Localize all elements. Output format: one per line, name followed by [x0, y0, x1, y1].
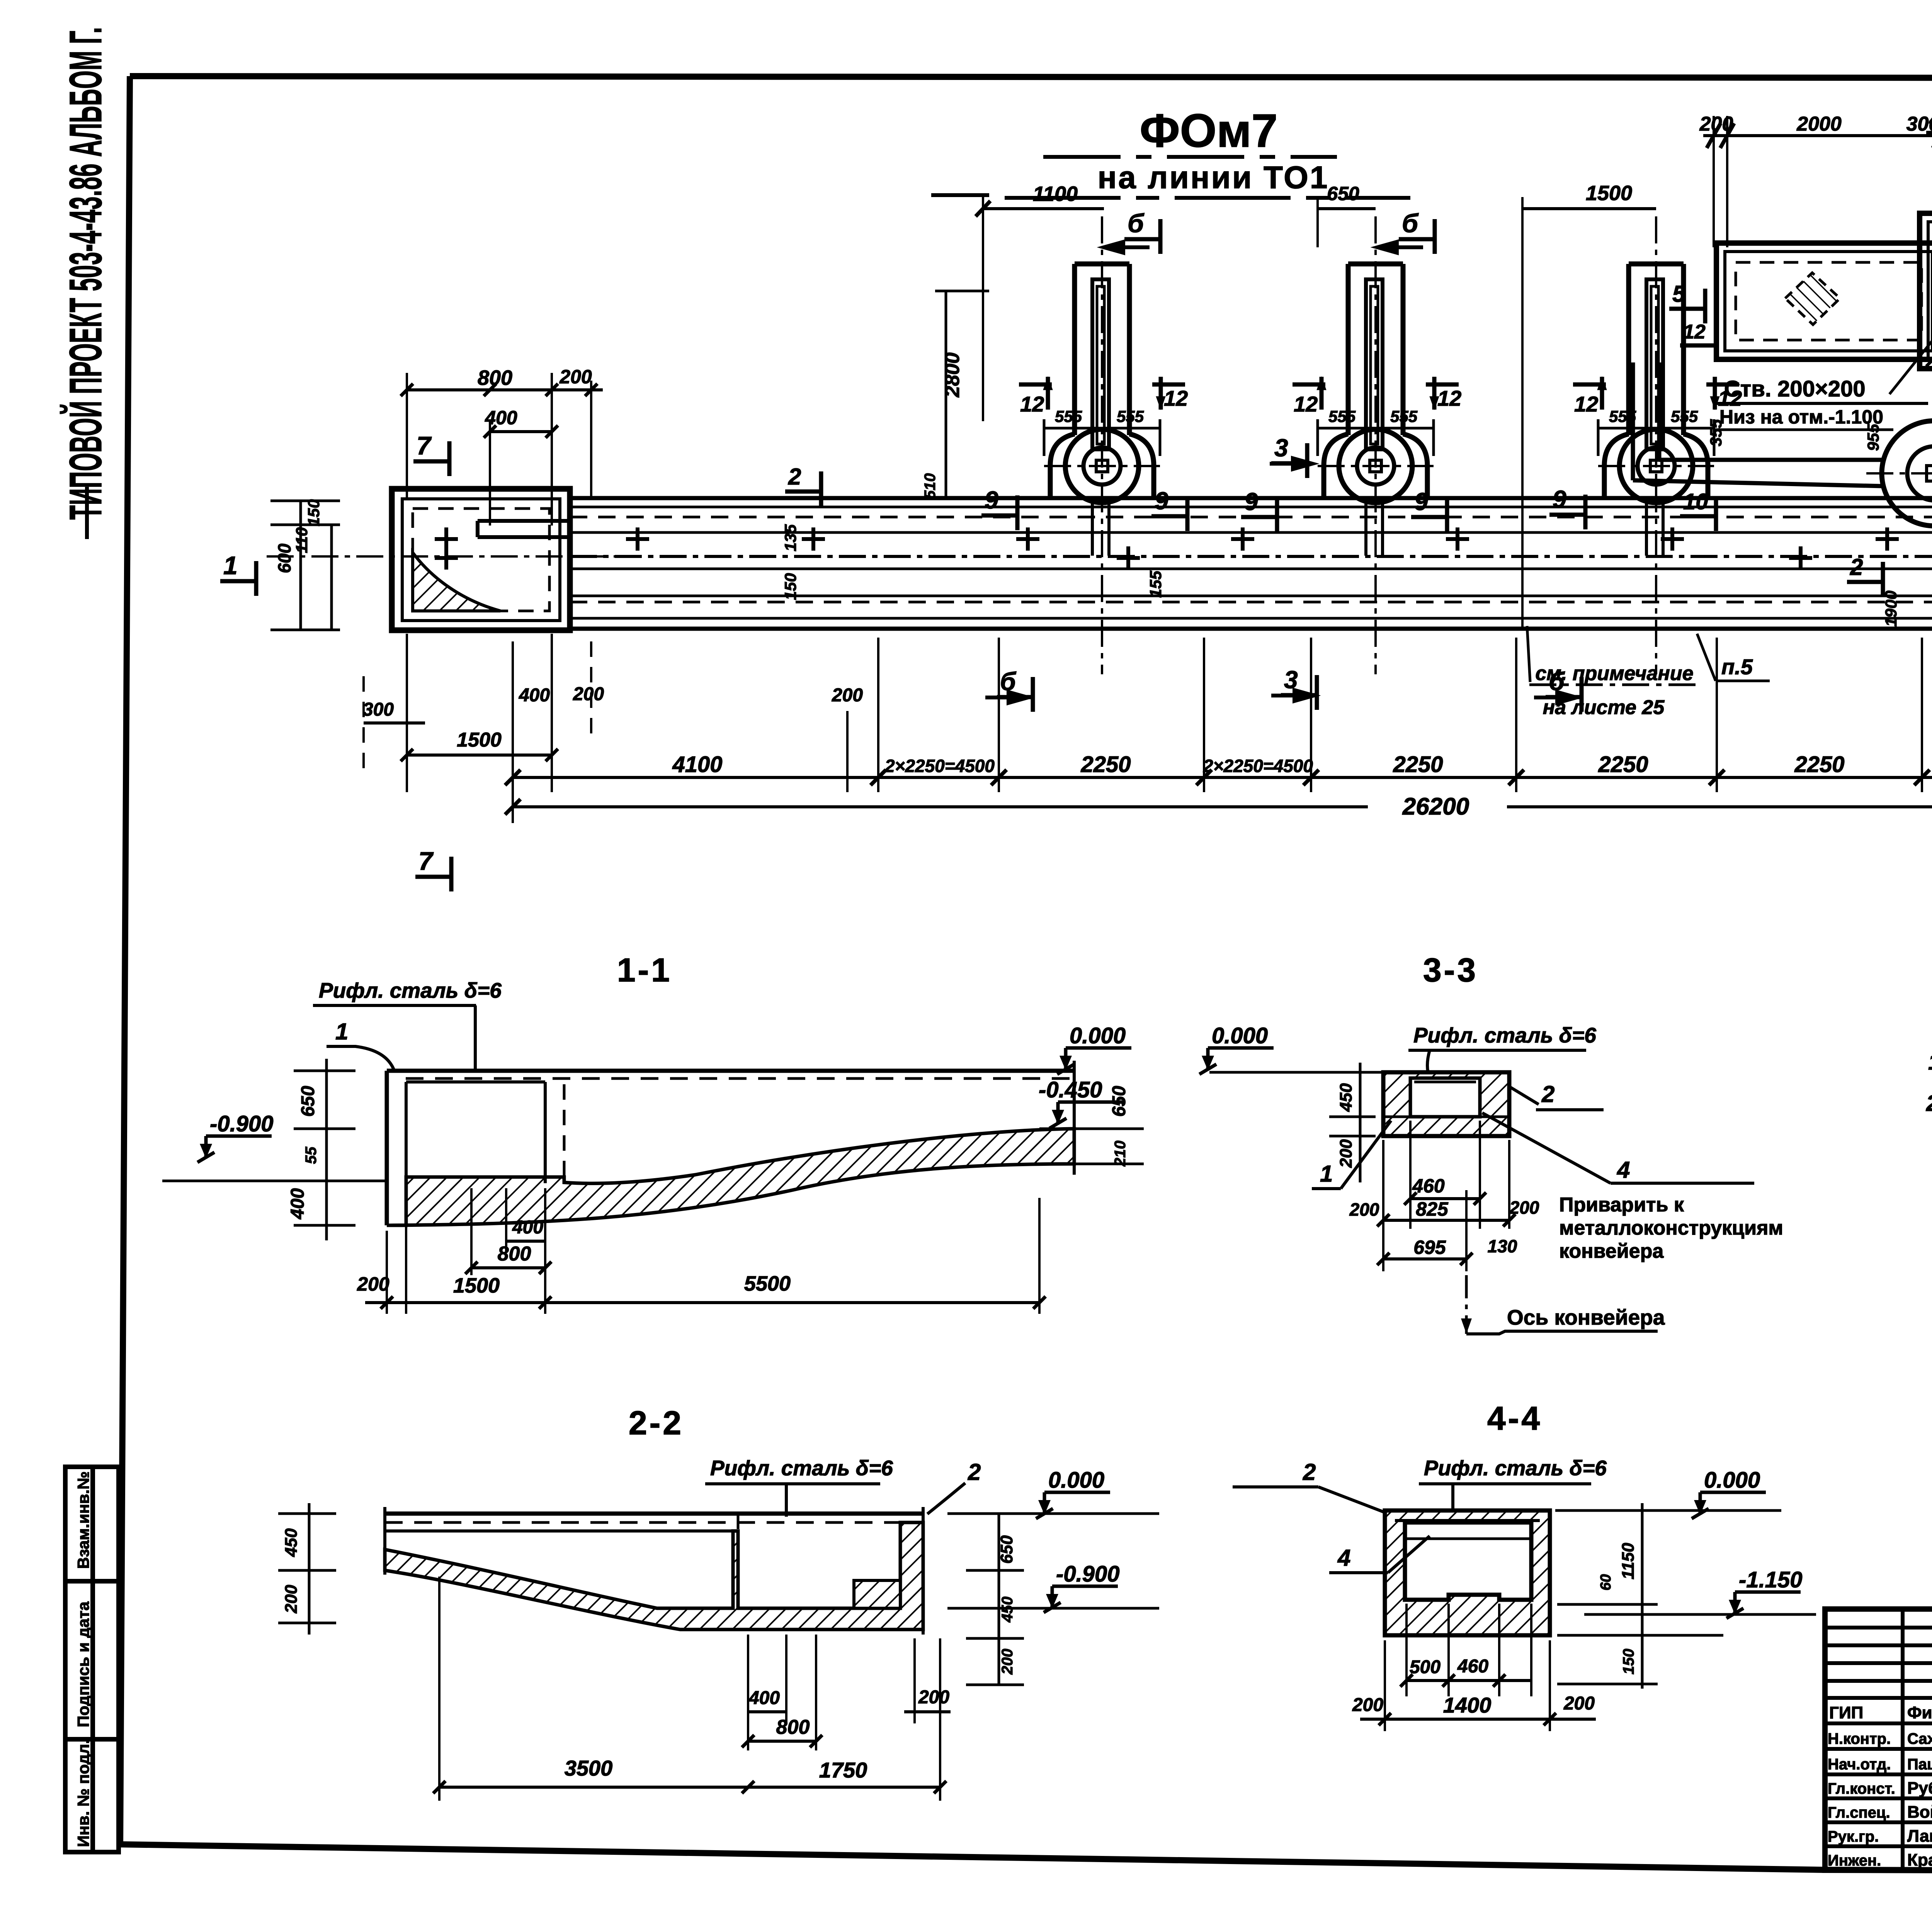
svg-text:200: 200 — [1699, 113, 1733, 135]
plan overall dimension 26200 — [505, 641, 1932, 823]
svg-text:5500: 5500 — [744, 1272, 791, 1295]
svg-text:200: 200 — [573, 684, 604, 704]
equipment base plan left rectangle — [1716, 243, 1932, 359]
svg-text:4: 4 — [1929, 109, 1932, 130]
anchor tower plan cx=2852 — [1044, 216, 1160, 674]
svg-text:400: 400 — [287, 1188, 308, 1220]
svg-text:Кравчук: Кравчук — [1907, 1851, 1932, 1869]
section 2-2 left dims — [278, 1503, 336, 1635]
svg-text:на линии ТО1: на линии ТО1 — [1098, 160, 1329, 195]
svg-text:200: 200 — [559, 366, 592, 388]
svg-text:1. Данный лист смотреть с: 1. Данный лист смотреть с листом 33 — [1928, 1050, 1932, 1075]
svg-text:12: 12 — [1718, 386, 1742, 410]
svg-text:Рубан: Рубан — [1907, 1779, 1932, 1798]
svg-text:1: 1 — [335, 1019, 348, 1044]
svg-text:1400: 1400 — [1443, 1693, 1492, 1717]
detail top dimension line — [1703, 116, 1932, 247]
svg-text:Ось конвейера: Ось конвейера — [1507, 1305, 1665, 1329]
svg-text:Рифл. сталь δ=6: Рифл. сталь δ=6 — [710, 1456, 893, 1480]
section 1-1 right elevation 0.000 — [1057, 1023, 1131, 1074]
svg-text:Войнов: Войнов — [1907, 1803, 1932, 1822]
svg-text:955: 955 — [1864, 424, 1882, 451]
svg-text:4-4: 4-4 — [1487, 1400, 1542, 1437]
svg-text:2250: 2250 — [1794, 752, 1844, 777]
drive unit circle plan — [1866, 367, 1932, 553]
svg-text:2: 2 — [788, 464, 801, 490]
tower1 top dim 1100 — [976, 197, 1104, 421]
section marks 3 — [1271, 434, 1308, 478]
section marks b below — [997, 667, 1034, 712]
section 2-2 elevation -0.900 — [1044, 1561, 1119, 1613]
svg-text:Рифл. сталь δ=6: Рифл. сталь δ=6 — [1424, 1456, 1607, 1480]
svg-text:9: 9 — [1553, 485, 1566, 513]
svg-text:555: 555 — [1328, 407, 1356, 425]
svg-text:0.000: 0.000 — [1212, 1023, 1268, 1048]
svg-text:200: 200 — [282, 1585, 301, 1614]
anchor tower plan cx=3560 — [1318, 216, 1434, 674]
svg-text:555: 555 — [1671, 407, 1698, 425]
svg-text:10: 10 — [1683, 489, 1708, 514]
svg-text:1150: 1150 — [1619, 1543, 1638, 1579]
svg-text:п.5: п.5 — [1721, 655, 1753, 679]
plan subtitle underline — [1005, 196, 1410, 200]
left bottom stamp box — [65, 1467, 119, 1852]
svg-text:Нач.отд.: Нач.отд. — [1828, 1756, 1891, 1773]
b mark arrows — [985, 242, 1577, 703]
svg-text:200: 200 — [357, 1273, 389, 1295]
svg-text:-1.150: -1.150 — [1739, 1567, 1802, 1592]
svg-text:450: 450 — [999, 1597, 1016, 1623]
svg-text:0.000: 0.000 — [1048, 1468, 1104, 1493]
section 3-3 bottom dims — [1377, 1121, 1515, 1271]
svg-text:200: 200 — [999, 1649, 1016, 1675]
tie crosses on strip axis — [435, 527, 458, 551]
section 1-1 left dims — [294, 1059, 355, 1240]
svg-text:200: 200 — [1349, 1199, 1379, 1220]
svg-text:12: 12 — [1683, 321, 1706, 343]
svg-text:55: 55 — [303, 1146, 320, 1164]
svg-text:135: 135 — [781, 524, 799, 551]
left margin underline dashes — [85, 487, 89, 539]
section 3-3 body — [1383, 1072, 1509, 1136]
section 3-3 elevation 0.000 — [1199, 1023, 1274, 1074]
section marks b above towers — [1124, 209, 1161, 254]
svg-text:0.000: 0.000 — [1704, 1468, 1760, 1493]
svg-text:2: 2 — [1541, 1081, 1554, 1107]
svg-text:7: 7 — [417, 431, 432, 460]
svg-text:200: 200 — [1563, 1693, 1595, 1714]
svg-text:12: 12 — [1020, 392, 1044, 416]
svg-text:2. Фундамент замаркирован: 2. Фундамент замаркирован на листе 25. — [1926, 1091, 1932, 1116]
svg-text:металлоконструкциям: металлоконструкциям — [1559, 1217, 1783, 1239]
svg-text:2-2: 2-2 — [629, 1405, 684, 1442]
svg-text:Гл.спец.: Гл.спец. — [1828, 1804, 1890, 1821]
conveyor trench strip plan — [570, 498, 1932, 629]
svg-text:9: 9 — [1244, 488, 1258, 515]
svg-text:3: 3 — [1274, 434, 1288, 462]
svg-text:конвейера: конвейера — [1559, 1240, 1664, 1262]
svg-text:450: 450 — [1337, 1083, 1355, 1112]
section 1-1 bottom dims — [365, 1182, 1046, 1314]
svg-text:Пашнищев: Пашнищев — [1907, 1756, 1932, 1773]
svg-text:Инжен.: Инжен. — [1828, 1852, 1881, 1869]
svg-text:555: 555 — [1609, 407, 1636, 425]
svg-text:600: 600 — [274, 543, 294, 573]
rebar marks 12 tower cx=2852 — [1019, 377, 1188, 456]
rebar marks 12 tower cx=3560 — [1293, 377, 1461, 456]
svg-text:б: б — [1128, 209, 1145, 238]
duct channel to drive unit — [1633, 362, 1885, 486]
svg-text:-0.900: -0.900 — [210, 1111, 273, 1136]
svg-text:2250: 2250 — [1598, 752, 1648, 777]
svg-text:12: 12 — [1574, 392, 1598, 416]
section 2-2 body — [385, 1507, 923, 1635]
svg-text:5: 5 — [1672, 281, 1686, 307]
svg-text:650: 650 — [1327, 183, 1359, 204]
svg-text:Рук.гр.: Рук.гр. — [1828, 1828, 1879, 1845]
section 4-4 right dims — [1557, 1503, 1723, 1689]
svg-text:1-1: 1-1 — [617, 952, 672, 989]
tower slot thru strip — [1091, 503, 1094, 556]
section mark 1 left — [220, 551, 257, 596]
svg-text:450: 450 — [282, 1528, 301, 1557]
svg-text:400: 400 — [519, 685, 550, 706]
section marks 9 — [981, 486, 1018, 530]
rebar marks 12 tower cx=4286 — [1573, 377, 1742, 456]
svg-text:1500: 1500 — [457, 729, 502, 751]
svg-text:4: 4 — [1337, 1545, 1350, 1571]
svg-text:4: 4 — [1617, 1157, 1630, 1183]
svg-text:26200: 26200 — [1402, 793, 1469, 820]
anchor tower plan cx=4286 — [1598, 216, 1714, 674]
svg-text:0.000: 0.000 — [1070, 1023, 1126, 1048]
section 1-1 body — [387, 1061, 1144, 1225]
svg-text:ГИП: ГИП — [1829, 1703, 1863, 1722]
svg-text:7: 7 — [418, 847, 434, 875]
svg-text:9: 9 — [985, 486, 998, 514]
section 3-3 os konveyera — [1465, 1275, 1468, 1334]
svg-text:555: 555 — [1117, 407, 1144, 425]
svg-text:300: 300 — [363, 699, 394, 720]
svg-text:695: 695 — [1413, 1237, 1446, 1258]
svg-text:ФОм7: ФОм7 — [1139, 104, 1277, 157]
svg-text:Взам.инв.№: Взам.инв.№ — [74, 1471, 92, 1569]
svg-text:500: 500 — [1410, 1657, 1440, 1677]
section 2-2 elevation 0.000 — [1036, 1468, 1110, 1519]
signature table grid — [1825, 1609, 1932, 1870]
section marks 10 — [1680, 489, 1717, 531]
svg-text:Гл.конст.: Гл.конст. — [1828, 1780, 1895, 1797]
equipment base plan center pit — [1920, 155, 1932, 369]
section 4-4 body — [1385, 1510, 1550, 1635]
svg-text:200: 200 — [1352, 1695, 1383, 1715]
svg-text:2000: 2000 — [1796, 113, 1842, 135]
svg-text:2: 2 — [1850, 554, 1863, 580]
svg-text:12: 12 — [1294, 392, 1318, 416]
svg-text:Приварить к: Приварить к — [1559, 1194, 1684, 1216]
svg-text:150: 150 — [781, 573, 799, 600]
svg-text:825: 825 — [1416, 1198, 1449, 1220]
svg-text:Низ на отм.-1.100: Низ на отм.-1.100 — [1719, 406, 1883, 428]
svg-text:12: 12 — [1437, 386, 1461, 410]
svg-text:400: 400 — [512, 1217, 543, 1238]
svg-text:2: 2 — [968, 1459, 981, 1485]
svg-text:Рифл. сталь δ=6: Рифл. сталь δ=6 — [319, 978, 502, 1002]
svg-text:1100: 1100 — [1033, 182, 1078, 206]
svg-text:1900: 1900 — [1882, 590, 1900, 626]
svg-text:2: 2 — [1303, 1459, 1316, 1485]
svg-text:130: 130 — [1488, 1236, 1517, 1256]
section 4-4 bottom dims — [1360, 1604, 1596, 1731]
svg-text:Сахновская: Сахновская — [1907, 1730, 1932, 1747]
svg-text:60: 60 — [1598, 1574, 1614, 1590]
plan title underline — [1043, 155, 1337, 159]
svg-text:-0.450: -0.450 — [1039, 1077, 1102, 1102]
svg-text:200: 200 — [1509, 1197, 1539, 1218]
svg-text:1: 1 — [223, 551, 238, 580]
section mark 12 detail — [1680, 321, 1717, 360]
tower2 top dim 650 — [1318, 207, 1376, 210]
svg-text:Н.контр.: Н.контр. — [1828, 1730, 1891, 1747]
svg-text:150: 150 — [304, 499, 323, 526]
svg-text:2250: 2250 — [1393, 752, 1443, 777]
svg-text:Ств. 200×200: Ств. 200×200 — [1724, 376, 1866, 401]
section 2-2 bottom dims — [433, 1577, 951, 1801]
svg-text:2×2250=4500: 2×2250=4500 — [1203, 756, 1313, 776]
section 3-3 left dims — [1329, 1063, 1376, 1182]
main title block outer — [1825, 1609, 1932, 1870]
svg-text:400: 400 — [485, 407, 517, 429]
svg-text:200: 200 — [832, 685, 863, 706]
svg-text:800: 800 — [776, 1716, 810, 1738]
svg-text:на листе 25: на листе 25 — [1543, 696, 1665, 719]
svg-text:460: 460 — [1457, 1656, 1488, 1677]
svg-text:200: 200 — [918, 1687, 949, 1708]
svg-text:510: 510 — [922, 473, 939, 499]
svg-text:12: 12 — [1164, 386, 1188, 410]
section mark 7 below — [415, 847, 452, 891]
svg-text:-0.900: -0.900 — [1056, 1561, 1119, 1587]
svg-text:Подпись и дата: Подпись и дата — [74, 1601, 92, 1727]
svg-text:400: 400 — [748, 1688, 780, 1708]
left pit plan — [267, 489, 630, 630]
svg-text:см. примечание: см. примечание — [1536, 662, 1694, 685]
svg-text:650: 650 — [298, 1086, 318, 1117]
plan dimension chain row — [505, 638, 1932, 792]
svg-text:555: 555 — [1390, 407, 1418, 425]
svg-text:800: 800 — [498, 1243, 531, 1265]
svg-text:1750: 1750 — [819, 1758, 867, 1782]
section 1-1 elevation -0.900 — [197, 1111, 273, 1162]
svg-text:9: 9 — [1414, 488, 1428, 515]
svg-text:Финкер: Финкер — [1907, 1703, 1932, 1722]
svg-text:150: 150 — [1620, 1649, 1637, 1675]
section marks 2 — [785, 464, 822, 506]
svg-text:460: 460 — [1412, 1175, 1445, 1197]
left pit bottom dims — [364, 634, 591, 792]
svg-text:Рифл. сталь δ=6: Рифл. сталь δ=6 — [1413, 1023, 1596, 1047]
svg-text:1500: 1500 — [453, 1274, 500, 1297]
svg-text:1500: 1500 — [1586, 182, 1632, 205]
tower3 top dim 1500 — [1522, 207, 1656, 210]
signature names column — [1828, 1703, 1932, 1869]
svg-text:555: 555 — [1055, 407, 1082, 425]
left pit top dims 800 200 400 — [401, 373, 603, 526]
svg-text:Инв. № подл.: Инв. № подл. — [74, 1739, 92, 1847]
section 1-1 elevation -0.450 — [1039, 1077, 1124, 1128]
svg-text:ТИПОВОЙ ПРОЕКТ 503-4-43.86 АЛЬ: ТИПОВОЙ ПРОЕКТ 503-4-43.86 АЛЬБОМ Г. — [60, 27, 111, 520]
svg-text:9: 9 — [1155, 487, 1168, 515]
svg-text:2250: 2250 — [1080, 752, 1131, 777]
svg-text:355: 355 — [1707, 419, 1725, 446]
section 4-4 elevation -1.150 — [1726, 1567, 1802, 1618]
svg-text:200: 200 — [1337, 1139, 1355, 1168]
svg-text:4100: 4100 — [672, 752, 722, 777]
svg-text:2×2250=4500: 2×2250=4500 — [884, 756, 995, 776]
section mark 7 above — [413, 431, 450, 476]
section 4-4 elevation 0.000 — [1692, 1468, 1766, 1519]
svg-text:210: 210 — [1112, 1141, 1129, 1167]
svg-text:б: б — [1402, 209, 1419, 238]
svg-text:Лавренко: Лавренко — [1907, 1827, 1932, 1846]
svg-text:3500: 3500 — [565, 1756, 613, 1780]
svg-text:3-3: 3-3 — [1423, 952, 1478, 989]
section marks 5 — [1669, 281, 1706, 323]
section mark 4 top — [1926, 109, 1932, 148]
svg-text:1: 1 — [1320, 1161, 1333, 1187]
svg-text:800: 800 — [478, 366, 512, 390]
svg-text:155: 155 — [1146, 570, 1165, 598]
